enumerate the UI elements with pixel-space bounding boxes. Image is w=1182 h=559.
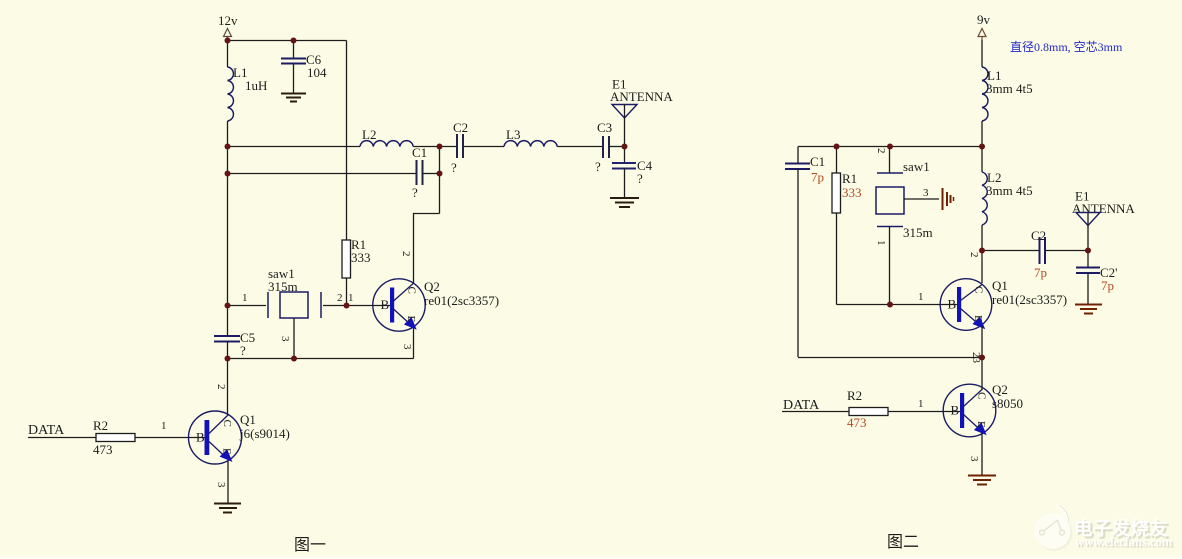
svg-text:1: 1: [161, 420, 167, 432]
svg-text:C: C: [976, 392, 988, 399]
capacitor C1 (fig2): [785, 147, 825, 358]
transistor Q1: [189, 411, 290, 464]
svg-text:3: 3: [923, 187, 929, 199]
svg-text:j6(s9014): j6(s9014): [239, 426, 290, 441]
node antenna: [622, 144, 628, 150]
node R1 top: [834, 144, 840, 150]
node rail y358: [225, 356, 231, 362]
node saw bottom: [887, 302, 893, 308]
antenna E1 (fig2): [1072, 189, 1135, 251]
capacitor C2: [451, 120, 468, 175]
svg-text:7p: 7p: [811, 170, 824, 185]
svg-text:B: B: [196, 430, 205, 445]
wire: [557, 146, 602, 148]
ground (C6): [281, 94, 306, 102]
svg-text:www.elecfans.com: www.elecfans.com: [1075, 535, 1173, 549]
svg-text:Q1: Q1: [240, 412, 256, 427]
svg-text:?: ?: [637, 171, 643, 186]
saw filter saw1: [268, 266, 321, 318]
svg-text:C3: C3: [597, 120, 612, 135]
svg-text:E: E: [221, 448, 233, 455]
inductor L3: [504, 127, 557, 147]
svg-text:2: 2: [337, 292, 343, 304]
svg-text:1: 1: [875, 240, 887, 246]
svg-text:C: C: [973, 286, 985, 293]
wire base bus y=305: [228, 305, 267, 307]
wire: [424, 173, 440, 175]
wire top rail: [228, 40, 347, 42]
svg-text:12v: 12v: [218, 13, 238, 28]
capacitor C6: [281, 41, 327, 94]
ground (Q2 fig2): [968, 476, 996, 485]
svg-text:E: E: [972, 315, 984, 322]
svg-text:re01(2sc3357): re01(2sc3357): [992, 292, 1067, 307]
wire top bus y=146: [798, 146, 982, 148]
svg-text:B: B: [381, 297, 390, 312]
capacitor C3: [595, 120, 612, 174]
resistor R2 (fig2): [847, 388, 888, 430]
svg-text:?: ?: [595, 159, 601, 174]
svg-text:C: C: [221, 420, 233, 427]
svg-text:333: 333: [842, 185, 862, 200]
svg-text:3: 3: [401, 344, 413, 350]
wire right vertical to R1: [346, 41, 348, 241]
watermark logo: [1035, 505, 1173, 552]
resistor R1 (fig2): [832, 147, 862, 305]
node R1 bottom: [344, 303, 350, 309]
svg-text:333: 333: [351, 250, 371, 265]
svg-text:直径0.8mm, 空芯3mm: 直径0.8mm, 空芯3mm: [1010, 40, 1123, 54]
wire base bus Q1 (fig2): [837, 304, 960, 306]
svg-text:?: ?: [412, 185, 418, 200]
svg-text:?: ?: [240, 343, 246, 358]
svg-text:ANTENNA: ANTENNA: [1072, 201, 1135, 216]
svg-text:9v: 9v: [977, 12, 991, 27]
svg-text:1: 1: [348, 292, 354, 304]
inductor L2: [360, 127, 413, 147]
node x439 y173: [437, 171, 443, 177]
wire Q1 emitter: [227, 461, 229, 503]
inductor L1: [228, 65, 268, 121]
capacitor C1: [412, 145, 427, 200]
antenna E1: [610, 77, 673, 147]
svg-text:L3: L3: [506, 127, 520, 142]
svg-text:ANTENNA: ANTENNA: [610, 89, 673, 104]
svg-text:1: 1: [918, 398, 924, 410]
svg-text:Q1: Q1: [992, 278, 1008, 293]
svg-text:E: E: [405, 316, 417, 323]
svg-text:C2: C2: [1031, 228, 1046, 243]
wire to Q2 base (fig2): [888, 411, 962, 413]
svg-text:3: 3: [279, 336, 291, 342]
wire rail to node: [981, 225, 983, 250]
wire: [463, 146, 504, 148]
wire left rail upper: [227, 41, 229, 68]
resistor R1: [342, 237, 371, 305]
svg-text:C2: C2: [453, 120, 468, 135]
svg-text:R2: R2: [847, 388, 862, 403]
wire Q1 emitter: [981, 326, 983, 358]
node C6 top: [291, 38, 297, 44]
svg-text:1: 1: [918, 291, 924, 303]
capacitor C2 (fig2): [1031, 228, 1047, 280]
capacitor C5: [214, 330, 255, 358]
saw pin 3 wire: [904, 198, 939, 200]
svg-text:3mm 4t5: 3mm 4t5: [986, 183, 1033, 198]
transistor Q2 (fig2): [943, 382, 1023, 437]
wire bus y=173: [228, 173, 416, 175]
wire bus y=146: [228, 146, 361, 148]
wire vertical node x=439: [439, 147, 441, 214]
svg-text:2: 2: [968, 252, 980, 258]
power 9v: [977, 12, 991, 40]
svg-text:DATA: DATA: [783, 398, 820, 413]
wire C1 bottom to node: [798, 357, 982, 359]
saw pin 3 lead: [293, 318, 295, 358]
svg-text:C: C: [406, 287, 418, 294]
svg-text:B: B: [951, 403, 960, 418]
wire left rail lower: [227, 342, 229, 416]
inductor L2 (fig2): [982, 170, 1033, 225]
wire step to Q2 collector: [414, 214, 440, 284]
capacitor C4: [612, 147, 653, 198]
node rail y305: [225, 303, 231, 309]
resistor R2: [93, 418, 135, 457]
svg-text:R1: R1: [842, 171, 857, 186]
svg-text:R2: R2: [93, 418, 108, 433]
svg-text:图一: 图一: [294, 537, 326, 554]
node saw top: [887, 144, 893, 150]
wire to Q1 base: [135, 437, 206, 439]
svg-text:DATA: DATA: [28, 423, 65, 438]
wire DATA (fig2): [782, 411, 849, 413]
wire Q2 collector (fig2): [981, 358, 983, 391]
svg-text:7p: 7p: [1034, 265, 1047, 280]
power 12v: [218, 13, 238, 40]
wire C2 bus y=250: [982, 250, 1039, 252]
svg-text:C1: C1: [810, 154, 825, 169]
node saw pin3: [291, 356, 297, 362]
transistor Q1 (fig2): [940, 278, 1067, 330]
node rail y173: [225, 171, 231, 177]
node 12v junction: [225, 38, 231, 44]
inductor L1 (fig2): [982, 67, 1033, 121]
svg-text:?: ?: [451, 160, 457, 175]
svg-text:2: 2: [400, 251, 412, 257]
wire Q2 emitter (fig2): [981, 433, 983, 475]
svg-text:L2: L2: [362, 127, 376, 142]
wire DATA: [28, 437, 96, 439]
svg-text:C1: C1: [412, 145, 427, 160]
svg-text:2: 2: [215, 384, 227, 390]
svg-text:3: 3: [215, 482, 227, 488]
wire: [609, 146, 625, 148]
node emitter-collector y357: [979, 355, 985, 361]
svg-text:E: E: [975, 421, 987, 428]
svg-text:B: B: [948, 297, 957, 312]
svg-text:7p: 7p: [1101, 278, 1114, 293]
wire Q2 emitter vertical: [413, 326, 415, 359]
svg-text:473: 473: [847, 415, 867, 430]
wire rail: [981, 121, 983, 172]
ground (C4): [610, 198, 639, 207]
wire Q1 collector: [981, 251, 983, 284]
svg-text:s8050: s8050: [992, 396, 1023, 411]
wire saw out: [323, 305, 392, 307]
svg-text:Q2: Q2: [992, 382, 1008, 397]
svg-text:1uH: 1uH: [245, 78, 267, 93]
wire: [1045, 250, 1088, 252]
transistor Q2: [373, 279, 499, 331]
ground (Q1): [214, 504, 241, 513]
svg-text:2: 2: [875, 148, 887, 154]
node rail y146: [225, 144, 231, 150]
svg-text:315m: 315m: [903, 225, 933, 240]
svg-text:saw1: saw1: [903, 159, 930, 174]
svg-text:图二: 图二: [887, 534, 919, 551]
capacitor C2' (fig2): [1076, 251, 1118, 305]
svg-text:1: 1: [242, 292, 248, 304]
node antenna (fig2): [1085, 248, 1091, 254]
wire left rail mid: [227, 121, 229, 336]
wire: [413, 146, 456, 148]
svg-text:3: 3: [968, 456, 980, 462]
svg-text:104: 104: [307, 65, 327, 80]
saw filter saw1 (fig2): [875, 147, 933, 305]
ground (C2' fig2): [1075, 305, 1102, 314]
node rail y146: [979, 144, 985, 150]
svg-text:re01(2sc3357): re01(2sc3357): [424, 293, 499, 308]
svg-text:3mm 4t5: 3mm 4t5: [986, 81, 1033, 96]
node x439 y146: [437, 144, 443, 150]
svg-text:473: 473: [93, 442, 113, 457]
node rail y250: [979, 248, 985, 254]
wire rail top: [981, 40, 983, 67]
svg-text:Q2: Q2: [424, 279, 440, 294]
wire emitter bus y=358: [228, 358, 414, 360]
ground (saw1 fig2, rotated): [943, 188, 954, 210]
